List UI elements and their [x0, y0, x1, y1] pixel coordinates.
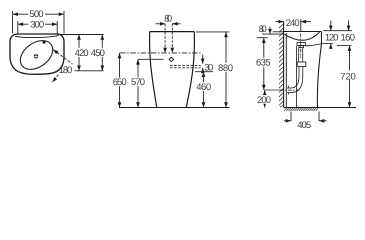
635 top reference line: [257, 37, 268, 39]
side view bowl section curve: [285, 32, 320, 41]
dimension 500: [13, 9, 64, 20]
dimension 120 upper arrow: [330, 21, 332, 31]
svg-text:120: 120: [325, 33, 339, 44]
svg-text:500: 500: [30, 9, 44, 20]
dimension 460: [196, 72, 212, 108]
svg-text:80: 80: [259, 24, 267, 35]
plan view basin inner rim back arc: [15, 36, 59, 38]
side view wall line: [283, 21, 285, 107]
side view floor line: [284, 107, 356, 109]
405 right extension: [318, 112, 320, 122]
405 left extension: [290, 112, 292, 122]
dimension 650: [112, 53, 128, 108]
dimension 420: [78, 35, 80, 71]
plan view: extension lines for 300: [18, 21, 57, 34]
side view basin deck line: [284, 31, 322, 33]
plan view: top extension line to right: [57, 34, 104, 36]
120 lower arrow: [330, 44, 332, 49]
dimension 635: [256, 38, 272, 90]
460 reference line: [195, 71, 213, 73]
svg-text:450: 450: [91, 48, 105, 59]
svg-text:80: 80: [164, 14, 172, 25]
pedestal back edge: [285, 33, 287, 108]
160/720 shared reference line: [337, 45, 352, 47]
svg-text:650: 650: [113, 77, 127, 88]
front view floor line: [119, 107, 230, 109]
rim top extension line (side left): [273, 31, 284, 33]
bowl underside line: [306, 44, 322, 46]
union nut: [297, 62, 306, 67]
svg-text:880: 880: [218, 63, 233, 74]
outlet reference line: [265, 89, 284, 91]
side view rim front edge: [321, 32, 323, 44]
dimension 300: [18, 20, 57, 31]
outlet axis dashed horizontal: [281, 89, 301, 91]
wall hatching: [279, 24, 284, 108]
svg-text:180: 180: [59, 65, 73, 76]
dimension 240: [276, 18, 312, 29]
interior dashed line lower: [170, 67, 201, 69]
interior dashed line upper: [170, 65, 201, 67]
dimension 160 upper arrow: [348, 21, 350, 31]
pipe wall flange: [288, 86, 290, 95]
drain flange: [297, 43, 306, 48]
dimension 200: [257, 90, 272, 108]
plan view: extension lines for 500: [13, 11, 64, 34]
dimension 80 (side): [259, 24, 270, 35]
drain symbol: [34, 54, 39, 59]
dimension 570: [130, 59, 146, 107]
top reference line (side right): [323, 30, 352, 32]
svg-text:200: 200: [257, 95, 271, 106]
svg-text:460: 460: [196, 82, 211, 93]
waterline dash-dot: [120, 52, 201, 54]
dimension 180 leader: [53, 50, 73, 83]
plan view: bottom extension line: [75, 70, 104, 72]
svg-text:420: 420: [75, 48, 89, 59]
dimension 405: [284, 120, 327, 131]
drain tailpipe: [299, 48, 303, 63]
svg-text:300: 300: [30, 20, 44, 31]
plan view bowl (tilted ellipse): [15, 35, 58, 76]
drain axis dashed vertical: [300, 34, 302, 59]
dimension 720 (shared line with 160 lower arrow): [340, 46, 357, 108]
svg-text:240: 240: [286, 18, 300, 29]
front view body outline: [150, 32, 195, 108]
tap axis dashed line (left): [164, 24, 166, 53]
dimension 450: [74, 35, 105, 71]
pipe below nut: [299, 67, 303, 77]
drill point diamond: [169, 57, 173, 61]
svg-text:570: 570: [131, 77, 145, 88]
240 right extension line: [300, 19, 302, 31]
pedestal cavity line: [296, 46, 298, 107]
570 reference line: [138, 58, 164, 60]
dimension 80 (front): [156, 14, 181, 25]
plan view basin outer outline: [10, 34, 64, 74]
trap elbow to wall: [287, 76, 303, 93]
120 lower reference line: [322, 43, 334, 45]
pedestal front curve: [317, 44, 321, 108]
svg-text:635: 635: [256, 58, 271, 69]
dimension 880: [218, 32, 234, 108]
floor hatching: [284, 108, 318, 111]
tap hole: [43, 41, 46, 44]
svg-text:405: 405: [297, 120, 311, 131]
tap supply reference line: [262, 33, 284, 35]
svg-text:720: 720: [340, 71, 356, 82]
dimension 30: [203, 55, 214, 74]
svg-text:160: 160: [341, 33, 356, 44]
880 top extension line: [196, 31, 229, 33]
drain axis dashed line (centre): [171, 24, 173, 53]
